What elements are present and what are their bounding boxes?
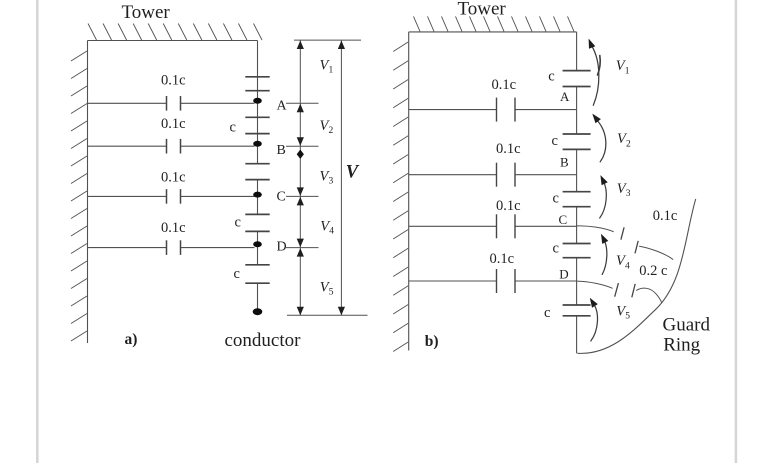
figure a: tower side wall with hatching (71, 41, 88, 344)
node D (fig a) junction dot (253, 241, 262, 247)
svg-text:c: c (548, 68, 554, 84)
value label 0.1c (fig b branch 3) (496, 198, 521, 214)
dimension tick at node C (fig a) (286, 195, 319, 197)
value label 0.1c (fig a branch 1) (161, 73, 186, 89)
arrowhead V5 up at D (fig a) (297, 248, 304, 257)
wire: insulator string segment c1-c2 (fig b) (576, 87, 578, 135)
svg-text:c: c (235, 215, 241, 231)
current arrow V3 (fig b) (600, 175, 608, 218)
value label c for C2 (fig a) (230, 120, 236, 136)
capacitor 0.1c (fig b branch 4) (497, 269, 516, 293)
capacitor c unit 3 (fig b string) (563, 192, 591, 207)
capacitor 0.1c (fig a branch 2) (167, 139, 181, 154)
svg-text:c: c (234, 266, 240, 282)
voltage label V4 (fig b) (616, 253, 630, 271)
wire: insulator string bottom segment to conductor (fig a) (257, 283, 259, 311)
svg-text:Guard: Guard (663, 315, 711, 336)
arrowhead V4 down at D (fig a) (297, 239, 304, 248)
svg-text:0.1c: 0.1c (496, 198, 521, 214)
svg-text:0.2 c: 0.2 c (639, 263, 667, 279)
svg-text:4: 4 (625, 261, 630, 271)
figure a: Tower label (122, 2, 171, 23)
svg-text:C: C (559, 212, 568, 227)
svg-text:Tower: Tower (122, 2, 171, 23)
svg-text:0.1c: 0.1c (161, 170, 186, 186)
value label 0.1c (guard ring upper) (653, 208, 678, 224)
wire: branch 2 from tower (fig a) (88, 145, 255, 147)
arrowhead V5 bottom (fig a) (297, 307, 304, 316)
node: conductor junction dot (fig a) (253, 308, 263, 315)
node A label (fig b) (560, 89, 570, 104)
arrowhead V total bottom (fig a) (338, 307, 345, 316)
dimension tick at node A (fig a) (286, 102, 319, 104)
dimension line V1-V5 vertical (fig a) (299, 41, 301, 316)
wire: insulator string segment c3-c4 (fig b) (576, 207, 578, 244)
svg-text:0.1c: 0.1c (161, 73, 186, 89)
label Guard Ring (663, 315, 711, 356)
capacitor c C5 (fig a string, below D) (245, 265, 269, 283)
capacitor 0.1c to guard ring: plate 1 (621, 227, 624, 239)
svg-text:0.1c: 0.1c (161, 220, 186, 236)
svg-text:3: 3 (626, 189, 631, 199)
value label 0.1c (fig a branch 4) (161, 220, 186, 236)
arrowhead V4 up at C (fig a) (297, 197, 304, 206)
wire: branch 1 from tower (fig b) (409, 109, 577, 111)
caption a) (125, 331, 138, 348)
svg-text:A: A (560, 89, 570, 104)
arrowhead V total top (fig a) (338, 41, 345, 50)
capacitor 0.1c (fig a branch 1) (167, 96, 181, 111)
wire: insulator string top segment (fig b) (576, 32, 578, 71)
wire: insulator string segment C4-C5 (fig a) (257, 231, 259, 264)
voltage label V5 (fig a) (320, 279, 334, 297)
voltage label V1 (fig a) (320, 57, 334, 75)
svg-text:0.1c: 0.1c (496, 141, 521, 157)
capacitor 0.1c (fig b branch 3) (497, 214, 516, 238)
svg-text:1: 1 (328, 66, 333, 76)
svg-text:0.1c: 0.1c (653, 208, 678, 224)
arrowhead diamond below B (fig a) (297, 150, 304, 159)
figure a: tower top wall with hatching (88, 24, 263, 41)
figure b: tower side wall with hatching (393, 32, 409, 352)
capacitor 0.2c to guard ring: plate 1 (615, 283, 619, 297)
dimension line V total vertical (fig a) (340, 41, 342, 316)
value label c for C5 (fig a) (234, 266, 240, 282)
value label c unit 2 (fig b) (552, 133, 558, 149)
wire: branch 4 from tower (fig b) (409, 280, 577, 282)
voltage label V3 (fig a) (320, 168, 334, 186)
capacitor 0.1c (fig b branch 2) (497, 163, 516, 187)
value label c unit 3 (fig b) (553, 190, 559, 206)
wire: branch 3 from tower (fig b) (409, 225, 577, 227)
current arrow V2 (fig b) (592, 114, 606, 162)
capacitor c unit 4 (fig b string) (563, 244, 591, 258)
value label 0.1c (fig b branch 2) (496, 141, 521, 157)
guard ring arc (578, 199, 696, 353)
svg-text:D: D (559, 267, 568, 282)
value label c for C4 (fig a) (235, 215, 241, 231)
wire: branch 4 from tower (fig a) (88, 247, 255, 249)
dimension tick: top reference line (fig a) (294, 39, 361, 41)
svg-text:c: c (544, 305, 550, 321)
svg-text:2: 2 (328, 126, 333, 136)
value label c unit 1 (fig b) (548, 68, 554, 84)
voltage label V total (fig a) (346, 162, 360, 182)
wire: guard-ring capacitor 0.1c to ring (fig b) (640, 246, 673, 259)
node B label (fig a) (277, 143, 286, 158)
wire: insulator string segment C3-C4 (fig a) (257, 180, 259, 215)
caption b) (425, 333, 439, 350)
node A label (fig a) (277, 99, 288, 114)
wire: insulator string segment c4-c5 (fig b) (576, 258, 578, 305)
dimension tick at node B (fig a) (286, 145, 319, 147)
voltage label V4 (fig a) (320, 218, 334, 236)
svg-text:Ring: Ring (663, 335, 700, 356)
voltage label V3 (fig b) (617, 181, 631, 199)
arrowhead V2 up at A (fig a) (297, 104, 304, 113)
node D label (fig b) (559, 267, 568, 282)
capacitor c C4 (fig a string, C-D) (245, 214, 269, 231)
svg-text:5: 5 (625, 312, 630, 322)
figure b: Tower label (458, 0, 507, 20)
svg-text:V: V (346, 162, 360, 182)
current arrow V5 (fig b) (590, 298, 598, 341)
wire: branch 1 from tower (fig a) (88, 102, 255, 104)
voltage label V2 (fig a) (320, 118, 334, 136)
voltage label V2 (fig b) (617, 131, 631, 149)
wire: node C to guard-ring capacitor (fig b) (577, 226, 613, 232)
svg-text:1: 1 (625, 66, 630, 76)
wire: node D to guard-ring capacitor (fig b) (577, 281, 612, 288)
svg-text:0.1c: 0.1c (492, 77, 517, 93)
svg-text:c: c (552, 133, 558, 149)
arrowhead V2 down at B (fig a) (297, 137, 304, 146)
node C label (fig a) (277, 189, 286, 204)
dimension tick at node D (fig a) (286, 247, 319, 249)
value label c unit 4 (fig b) (553, 241, 559, 257)
svg-text:4: 4 (329, 227, 334, 237)
svg-text:c: c (553, 190, 559, 206)
value label 0.1c (fig a branch 3) (161, 170, 186, 186)
node C label (fig b) (559, 212, 568, 227)
wire: branch 2 from tower (fig b) (409, 174, 577, 176)
current arrow V1 (fig b) (589, 39, 601, 106)
value label 0.1c (fig b branch 1) (492, 77, 517, 93)
capacitor c unit 5 (fig b string) (563, 305, 591, 316)
capacitor 0.1c (fig a branch 4) (167, 240, 181, 255)
value label 0.1c (fig a branch 2) (161, 116, 186, 132)
figure b: tower top wall with hatching (409, 16, 577, 32)
current arrow V4 (fig b) (601, 234, 608, 275)
voltage label V1 (fig b) (616, 58, 630, 76)
wire: guard-ring capacitor 0.2c to ring (fig b) (637, 288, 662, 302)
svg-text:C: C (277, 189, 286, 204)
svg-text:c: c (230, 120, 236, 136)
wire: insulator string segment c2-c3 (fig b) (576, 149, 578, 191)
dimension tick: bottom conductor reference line (fig a) (287, 314, 368, 316)
capacitor 0.1c (fig b branch 1) (497, 98, 516, 122)
svg-text:c: c (553, 241, 559, 257)
svg-text:A: A (277, 99, 288, 114)
wire: branch 3 from tower (fig a) (88, 195, 255, 197)
arrowhead V3 down at C (fig a) (297, 187, 304, 196)
capacitor c C2 (fig a string, A-B) (245, 117, 269, 133)
svg-text:0.1c: 0.1c (161, 116, 186, 132)
capacitor c unit 1 (fig b string) (563, 71, 591, 87)
value label 0.1c (fig b branch 4) (490, 251, 515, 267)
svg-text:2: 2 (626, 139, 631, 149)
capacitor c C3 (fig a string, B-C) (245, 164, 269, 180)
capacitor 0.2c to guard ring: plate 2 (632, 284, 635, 297)
node B (fig a) junction dot (253, 141, 262, 147)
svg-text:0.1c: 0.1c (490, 251, 515, 267)
svg-text:5: 5 (329, 288, 334, 298)
svg-text:B: B (277, 143, 286, 158)
node D label (fig a) (277, 240, 287, 255)
value label 0.2 c (guard ring lower) (639, 263, 667, 279)
wire: insulator string bottom segment (fig b) (576, 316, 578, 354)
svg-text:conductor: conductor (225, 330, 302, 351)
capacitor 0.1c to guard ring: plate 2 (635, 241, 638, 253)
svg-text:D: D (277, 240, 287, 255)
capacitor 0.1c (fig a branch 3) (167, 189, 181, 204)
svg-text:Tower: Tower (458, 0, 507, 20)
node C (fig a) junction dot (253, 192, 262, 198)
svg-text:3: 3 (328, 177, 333, 187)
capacitor c (fig a string, top unit) (245, 77, 269, 91)
value label c unit 5 (fig b) (544, 305, 550, 321)
svg-text:B: B (560, 154, 569, 169)
arrowhead V1 top (fig a) (297, 41, 304, 50)
svg-text:b): b) (425, 333, 439, 350)
node B label (fig b) (560, 154, 569, 169)
wire: insulator string top segment (fig a) (257, 41, 259, 164)
node A (fig a) junction dot (253, 98, 262, 104)
capacitor c unit 2 (fig b string) (563, 134, 591, 149)
svg-text:a): a) (125, 331, 138, 348)
label conductor (225, 330, 302, 351)
voltage label V5 (fig b) (616, 303, 630, 321)
